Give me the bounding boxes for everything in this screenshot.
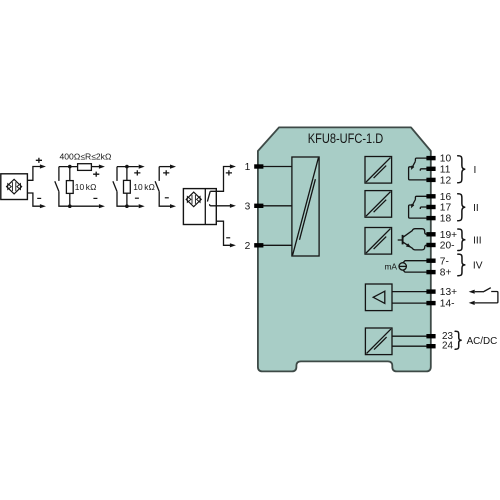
mA meter symbol: [399, 263, 406, 270]
node dot: [68, 165, 72, 169]
svg-text:20-: 20-: [440, 241, 455, 252]
resistor 10k shunt: [126, 167, 128, 181]
arrow to minus terminal: [139, 204, 145, 208]
svg-text:19+: 19+: [440, 230, 457, 241]
terminal pin 8: [426, 270, 435, 274]
svg-text:24: 24: [442, 340, 453, 351]
isolator square 1: [365, 157, 392, 184]
terminal pin 13: [426, 289, 435, 293]
arrow to plus terminal: [170, 165, 176, 169]
wire pin 2 to converter: [256, 244, 292, 246]
terminal pin 7: [426, 259, 435, 263]
svg-text:400Ω≤R≤2kΩ: 400Ω≤R≤2kΩ: [60, 152, 113, 162]
svg-text:KFU8-UFC-1.D: KFU8-UFC-1.D: [308, 131, 384, 146]
brace group III: [458, 229, 466, 251]
arrow to minus terminal: [99, 204, 105, 208]
terminal pin 14: [426, 301, 435, 305]
terminal pin 23: [426, 334, 435, 338]
svg-text:mA: mA: [384, 262, 397, 272]
svg-text:AC/DC: AC/DC: [467, 336, 498, 347]
isolator square 2: [365, 191, 392, 218]
wire meter to pin 8: [403, 270, 427, 272]
terminal pin 17: [426, 205, 435, 209]
resistor 10k shunt: [69, 167, 71, 181]
wire power to pin 24: [392, 345, 427, 347]
svg-text:1: 1: [245, 162, 251, 173]
terminal pin 3: [254, 204, 263, 208]
svg-text:17: 17: [440, 203, 452, 214]
svg-text:I: I: [474, 165, 477, 176]
wire top: [159, 166, 170, 168]
svg-text:11: 11: [440, 164, 451, 175]
terminal pin 20: [426, 243, 435, 247]
svg-text:10 kΩ: 10 kΩ: [133, 182, 155, 192]
converter block U1: [292, 157, 319, 256]
terminal pin 1: [254, 164, 263, 168]
svg-text:III: III: [473, 235, 482, 246]
svg-text:8+: 8+: [440, 268, 452, 279]
svg-text:IV: IV: [473, 261, 483, 272]
terminal pin 2: [254, 243, 263, 247]
relay contact II (pins 16,17,18): [415, 196, 427, 199]
power supply square: [365, 328, 392, 355]
terminal pin 24: [426, 344, 435, 348]
resistor R series: [78, 164, 92, 171]
relay contact I (pins 10,11,12): [415, 158, 427, 161]
terminal pin 11: [426, 167, 435, 171]
svg-text:II: II: [473, 203, 479, 214]
node dot: [125, 204, 129, 208]
label minus: [37, 197, 41, 199]
label plus: [134, 170, 140, 175]
label minus: [226, 237, 230, 239]
label minus: [165, 197, 169, 199]
svg-text:10 kΩ: 10 kΩ: [75, 182, 97, 192]
wire sensor B2 minus: [216, 221, 230, 245]
node dot: [125, 165, 129, 169]
switch S4: [158, 167, 160, 181]
wire top: [59, 166, 78, 168]
terminal pin 19: [426, 232, 435, 236]
svg-text:18: 18: [440, 214, 452, 225]
brace group IV: [458, 254, 466, 276]
label minus: [135, 197, 139, 199]
input amplifier square: [365, 284, 392, 311]
label plus: [93, 172, 99, 177]
label plus: [226, 170, 232, 175]
svg-text:7-: 7-: [440, 256, 449, 267]
wire top: [117, 166, 139, 168]
terminal pin 16: [426, 194, 435, 198]
terminal pin 10: [426, 156, 435, 160]
transistor output Q1 (pins 19,20): [398, 239, 403, 241]
sensor B2 (3-wire): [183, 189, 216, 225]
wire sensor B2 plus: [210, 167, 230, 192]
sensor B2 output stage: [207, 191, 210, 201]
arrow to minus terminal: [170, 204, 176, 208]
node dot: [68, 204, 72, 208]
switch S3: [116, 167, 118, 181]
svg-text:16: 16: [440, 192, 452, 203]
wire power to pin 23: [392, 335, 427, 337]
terminal pin 18: [426, 216, 435, 220]
label minus: [93, 197, 97, 199]
svg-text:2: 2: [245, 241, 251, 252]
wire input square to pin 13: [392, 291, 427, 293]
sensor B1 (2-wire NAMUR): [1, 174, 28, 200]
external switch S1 (pins 13,14): [469, 290, 475, 294]
brace AC/DC: [455, 331, 462, 349]
wire input square to pin 14: [392, 302, 427, 304]
brace group II: [458, 194, 466, 221]
isolator square 3: [365, 228, 392, 255]
wire pin 1 to converter: [256, 166, 292, 168]
wire to arrow: [91, 166, 99, 168]
wire meter to pin 7: [403, 261, 427, 263]
switch S2: [58, 167, 60, 181]
arrow to plus terminal: [139, 165, 145, 169]
device body KFU8-UFC-1.D: [258, 127, 431, 371]
label plus: [163, 170, 169, 175]
svg-text:14-: 14-: [440, 299, 455, 310]
svg-text:10: 10: [440, 154, 452, 165]
svg-text:3: 3: [245, 201, 251, 212]
wire pin 3 to converter: [256, 205, 292, 207]
wire sensor B2 signal: [211, 205, 231, 207]
terminal pin 12: [426, 178, 435, 182]
wire sensor B1 minus: [27, 193, 40, 206]
label plus: [36, 158, 42, 163]
wire sensor B1 plus: [27, 167, 40, 181]
svg-text:13+: 13+: [440, 287, 457, 298]
svg-text:12: 12: [440, 176, 452, 187]
brace group I: [458, 156, 466, 183]
